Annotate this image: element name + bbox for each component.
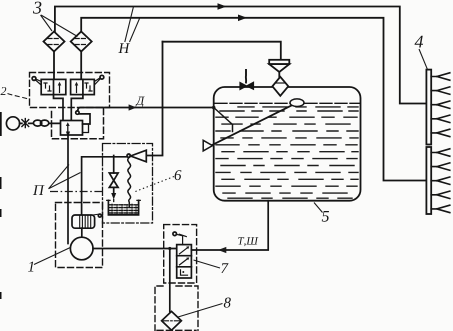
liquid in small tank xyxy=(109,205,138,213)
wire line1 (left filter to top manifold feed) xyxy=(55,7,426,104)
leader for Н xyxy=(125,7,140,43)
wire suction line from y156 corner down through strainer xyxy=(82,157,127,215)
strainer rect xyxy=(72,215,95,228)
level pointer triangle xyxy=(203,140,212,151)
filter 8 diamond xyxy=(162,311,182,330)
valve V1 internals xyxy=(44,83,51,91)
lever of V1 xyxy=(32,77,36,81)
wavy hose from nozzle xyxy=(128,158,131,207)
label 8 xyxy=(224,298,231,308)
tank 5 body xyxy=(214,87,361,201)
filter F3a (left diamond) xyxy=(44,32,65,52)
label Н xyxy=(118,43,130,53)
lever of V2 xyxy=(100,75,104,79)
junction to filter 8 xyxy=(168,247,171,250)
label Т,Ш xyxy=(238,237,258,246)
dotted leader for 6 xyxy=(134,177,174,193)
coupling capsule xyxy=(33,120,41,126)
pump circle xyxy=(70,237,93,260)
leader for 2 xyxy=(8,94,30,100)
dashed box 2 (distributor block) xyxy=(30,73,110,108)
valve V2 internals xyxy=(76,84,78,93)
label 5 xyxy=(322,211,329,222)
funnel right branch under V2 xyxy=(71,95,83,121)
dash-dot link П to box6 xyxy=(50,191,103,193)
filler funnel xyxy=(269,60,289,64)
leader for 5 xyxy=(314,203,323,213)
valve 7 lever xyxy=(173,232,177,236)
wire filter F3a to valve block xyxy=(53,52,55,80)
leader for 4 xyxy=(419,49,428,70)
twin check valves column xyxy=(113,156,115,174)
junction dot at tank inlet xyxy=(212,106,216,110)
dashed box 7 xyxy=(164,225,197,283)
leader for 7 xyxy=(194,260,221,268)
leader for 1 xyxy=(34,247,71,264)
label 1 xyxy=(28,262,33,272)
wire Д-line (valve to tank) xyxy=(78,108,214,111)
wire pump outlet to valve7 xyxy=(93,248,177,250)
dashed box 1 (pump unit) xyxy=(56,203,103,268)
return pipe inside tank xyxy=(214,108,233,132)
arrow on T,Ш line xyxy=(218,247,226,253)
filler filter diamond xyxy=(272,77,288,96)
leader for 3 to right filter xyxy=(41,15,78,37)
wire filter F3b to valve block xyxy=(80,52,82,80)
leaders for П xyxy=(49,165,81,189)
nozzle cone in box6 xyxy=(131,150,147,162)
label 2 xyxy=(1,87,7,95)
label 7 xyxy=(221,263,228,273)
filter F3b (right diamond) xyxy=(71,32,92,52)
float rod xyxy=(204,106,292,150)
wire strainer to pump xyxy=(81,228,83,237)
wire vertical from line3 down to nozzle xyxy=(146,42,162,156)
label 4 xyxy=(415,36,424,48)
scan marks at left edge xyxy=(0,112,2,299)
manifold 4 bar lower segment xyxy=(426,147,431,214)
arrow on line1 xyxy=(218,3,227,10)
wire line2 (right filter to lower manifold feed) xyxy=(81,18,426,181)
shutoff X symbol xyxy=(22,119,29,128)
pilot loop wire xyxy=(83,124,89,133)
manifold 4 bar upper segment xyxy=(426,70,431,145)
pilot box xyxy=(79,114,90,124)
wire down to filter 8 xyxy=(169,249,171,312)
label Д xyxy=(136,97,145,107)
liquid surface xyxy=(215,102,360,104)
leader for 8 xyxy=(178,304,223,318)
valve V2 (right 2-pos valve) xyxy=(71,79,95,94)
wire U2 down to pump xyxy=(67,135,69,244)
arrow on Д-line xyxy=(129,104,137,110)
label П xyxy=(33,185,45,195)
dash-dot box 6 xyxy=(103,144,153,224)
small tank in box6 xyxy=(108,200,138,215)
wire handwheel to valve xyxy=(20,122,61,124)
strainer bypass tick xyxy=(93,213,99,216)
nozzles upper xyxy=(431,73,450,137)
float xyxy=(290,99,304,107)
dashed box lower (feeder block) xyxy=(52,109,104,139)
valve 7 body xyxy=(177,245,192,278)
shutoff valve on tank top xyxy=(240,83,247,90)
down arrow under U2 xyxy=(66,132,70,138)
valve V1 (left 2-pos valve) xyxy=(41,79,66,94)
wire line3 (tee to filler funnel) xyxy=(163,42,281,60)
handwheel circle xyxy=(6,117,19,130)
leader for 3 to left filter xyxy=(41,15,53,31)
dashed box 8 xyxy=(155,286,198,331)
label 3 xyxy=(33,2,41,14)
up arrow in U2 xyxy=(67,125,69,133)
valve 7 internals xyxy=(180,247,189,254)
pilot circle xyxy=(76,111,79,114)
strainer hatch xyxy=(80,216,91,228)
wire T,Ш line from tank bottom to valve7 xyxy=(191,201,268,250)
tank 5 group xyxy=(203,60,360,201)
solid arrow into small tank xyxy=(111,193,116,200)
lower valve U2 xyxy=(61,121,83,136)
arrow on line2 xyxy=(238,15,247,22)
liquid dashes xyxy=(216,107,358,198)
label 6 xyxy=(175,170,182,180)
nozzles lower xyxy=(431,149,450,213)
funnel left branch under V1 xyxy=(54,95,64,121)
